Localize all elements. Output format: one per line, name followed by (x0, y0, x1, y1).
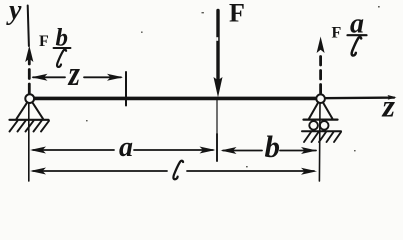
beam (28, 97, 322, 101)
z-axis arrowhead (388, 95, 397, 100)
right reaction dashed arrow Fa/l (319, 52, 322, 93)
b dimension line (223, 150, 316, 152)
fraction bar a/l (348, 34, 367, 36)
a dim right arrowhead (200, 147, 216, 154)
left support pin circle (25, 94, 34, 103)
right support triangle base (304, 118, 338, 120)
label l dimension (script ell) (173, 161, 183, 180)
right support ground line (302, 130, 341, 132)
label l of Fb/l (script ell) (57, 50, 66, 67)
left reaction arrowhead (25, 46, 33, 63)
fraction bar b/l (54, 47, 71, 49)
scan specks (86, 6, 380, 167)
svg-text:F: F (229, 0, 245, 28)
right support pin circle (316, 94, 325, 103)
left support ground line (10, 119, 49, 121)
tick at z end on beam (125, 72, 127, 106)
y-axis (28, 6, 29, 47)
b dim right arrowhead (301, 147, 317, 154)
l dim left arrowhead (30, 168, 46, 175)
left extension line (28, 103, 30, 181)
l dim right arrowhead (301, 168, 317, 175)
right support triangle (309, 103, 332, 119)
l dimension line (33, 170, 314, 172)
svg-text:a: a (119, 132, 133, 163)
svg-text:z: z (382, 88, 396, 124)
left reaction dashed arrow Fb/l (28, 60, 31, 93)
z dim right arrowhead (107, 74, 123, 81)
right reaction arrowhead (317, 37, 325, 54)
svg-text:y: y (6, 0, 22, 26)
force F arrowhead (214, 77, 223, 98)
left support hatching (10, 121, 50, 132)
svg-text:z: z (68, 54, 81, 93)
z dimension line (33, 76, 121, 78)
a dimension line (33, 149, 213, 151)
svg-text:a: a (350, 9, 364, 40)
force extension line (216, 100, 218, 134)
label l of Fa/l (script ell) (352, 37, 362, 55)
right support roller 1 (309, 121, 318, 130)
scan notch on force line (216, 37, 218, 41)
force extension tick at dims (216, 134, 218, 161)
force F line (216, 11, 219, 81)
z-axis line (322, 96, 394, 99)
svg-text:b: b (56, 24, 69, 51)
left support triangle (17, 102, 44, 118)
svg-text:b: b (265, 129, 281, 164)
svg-text:F: F (332, 25, 342, 42)
svg-text:F: F (39, 33, 49, 50)
b dim left arrowhead (221, 147, 237, 154)
a dim left arrowhead (30, 147, 46, 154)
right support hatching (304, 132, 341, 142)
z dim left arrowhead (32, 74, 48, 81)
right extension line (318, 103, 321, 181)
right support roller 2 (320, 121, 329, 130)
